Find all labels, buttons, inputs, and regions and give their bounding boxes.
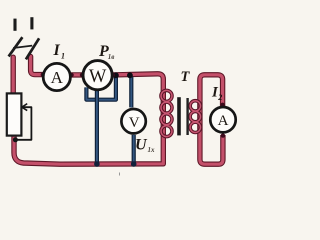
svg-text:T: T bbox=[181, 69, 191, 85]
svg-text:V: V bbox=[129, 115, 140, 131]
wire: switch elbow to ammeter A1 bbox=[31, 57, 43, 75]
terminal dot W right bbox=[111, 73, 115, 77]
terminal dot A1 right bbox=[69, 73, 73, 77]
svg-text:2: 2 bbox=[217, 93, 222, 102]
switch blade 1 bbox=[9, 37, 23, 56]
svg-text:U: U bbox=[135, 137, 148, 154]
svg-text:A: A bbox=[218, 113, 229, 129]
switch fixed contact 1 bbox=[13, 19, 16, 31]
switch fixed contact 2 bbox=[30, 17, 33, 29]
svg-text:A: A bbox=[51, 68, 64, 87]
wire: secondary loop bbox=[200, 75, 223, 164]
transformer secondary coil loops bbox=[190, 101, 200, 133]
junction dot bottom line at voltmeter wire bbox=[131, 161, 137, 167]
terminal dot A2 top bbox=[220, 103, 224, 107]
svg-text:1в: 1в bbox=[108, 53, 115, 61]
blue wire: W voltage terminal to bottom line bbox=[95, 90, 99, 164]
rheostat tap arrowhead bbox=[22, 104, 27, 111]
junction dot on top line (right) bbox=[127, 72, 133, 78]
terminal dot A1 left bbox=[41, 73, 45, 77]
transformer core bar 1 bbox=[177, 97, 181, 135]
rheostat tap junction dot bbox=[13, 137, 18, 142]
switch blade 2 bbox=[26, 38, 39, 59]
blue wire: voltmeter bottom to bottom line bbox=[132, 135, 136, 164]
svg-text:1х: 1х bbox=[148, 146, 156, 154]
wattmeter W bbox=[83, 61, 112, 90]
wire: primary loop (top from W, right side, bottom) bbox=[14, 74, 163, 164]
rheostat tap wire bbox=[16, 107, 31, 140]
label I2 bbox=[211, 85, 222, 103]
switch linkage bar bbox=[13, 46, 32, 48]
transformer primary coil loops bbox=[161, 90, 172, 136]
label P1x bbox=[98, 43, 114, 61]
wire: left vertical from switch to rheostat bbox=[10, 57, 15, 95]
junction dot on top line (left) bbox=[113, 72, 119, 78]
transformer core bar 2 bbox=[186, 98, 188, 135]
terminal dot A2 bottom bbox=[221, 133, 225, 137]
wire: stub between A1 and W bbox=[71, 72, 82, 77]
label I1 bbox=[53, 42, 66, 61]
label U1x bbox=[135, 137, 155, 155]
blue wire: W voltage terminal to line junction (n-shape) bbox=[86, 77, 116, 100]
voltmeter V bbox=[121, 109, 145, 133]
svg-text:W: W bbox=[89, 67, 107, 87]
blue wire: top line junction to voltmeter top bbox=[129, 77, 133, 108]
caption tick below bbox=[119, 173, 121, 176]
svg-text:I: I bbox=[53, 42, 61, 59]
ammeter A2 bbox=[210, 107, 235, 132]
rheostat body bbox=[7, 93, 22, 135]
svg-text:1: 1 bbox=[61, 52, 65, 61]
terminal dot W left bbox=[80, 73, 84, 77]
junction dot bottom line at W voltage wire bbox=[94, 161, 100, 167]
ammeter A1 bbox=[43, 63, 70, 90]
